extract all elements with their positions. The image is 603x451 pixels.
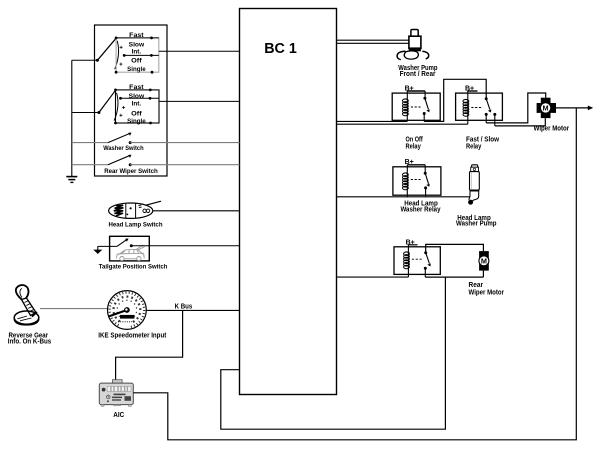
svg-text:Wiper Motor: Wiper Motor <box>534 125 570 132</box>
head lamp washer pump <box>456 165 497 228</box>
wire S2 output to BC1 <box>159 100 240 102</box>
wire S1 output to BC1 <box>159 50 240 52</box>
svg-text:Fast: Fast <box>129 84 144 91</box>
wire S1 pivot lead <box>72 59 97 61</box>
svg-text:Int.: Int. <box>132 101 142 108</box>
wire washer switch to BC1 <box>130 142 239 144</box>
head lamp switch <box>108 201 162 229</box>
svg-text:Off: Off <box>131 58 142 65</box>
washer switch <box>72 133 144 152</box>
svg-text:Fast: Fast <box>129 32 144 39</box>
tailgate position switch <box>93 236 167 270</box>
ground <box>66 177 77 183</box>
wire K2 out1 to wiper motor top <box>486 93 546 123</box>
svg-text:M: M <box>543 104 549 113</box>
svg-text:Int.: Int. <box>132 49 142 56</box>
svg-text:Rear: Rear <box>469 282 484 289</box>
switch assembly box <box>95 25 168 176</box>
svg-text:Wiper Motor: Wiper Motor <box>469 289 505 296</box>
wire speedometer to BC1 <box>146 309 239 311</box>
svg-text:Tailgate Position Switch: Tailgate Position Switch <box>99 264 168 271</box>
wire BC1 to K4 coil <box>337 276 409 278</box>
wire K4 common to rear motor top <box>426 244 484 252</box>
svg-text:Info. On K-Bus: Info. On K-Bus <box>8 339 51 346</box>
rotary wiper switch S1 <box>72 32 159 73</box>
svg-text:Washer Pump: Washer Pump <box>456 220 497 227</box>
svg-text:AIC: AIC <box>113 412 124 419</box>
wire AIC output to wiper motor line <box>133 108 576 440</box>
relay K4 rear wiper <box>394 239 504 296</box>
wire head lamp switch to BC1 <box>153 210 240 212</box>
svg-text:K Bus: K Bus <box>175 303 193 310</box>
AIC module <box>99 380 133 419</box>
wire BC1 to head lamp washer pump <box>337 196 470 198</box>
svg-text:IKE Speedometer Input: IKE Speedometer Input <box>98 332 167 339</box>
svg-text:Single: Single <box>127 66 146 73</box>
svg-text:Fast / Slow: Fast / Slow <box>466 137 500 144</box>
wire K-Bus drop to AIC <box>116 310 183 379</box>
rear wiper motor M2 <box>479 251 489 271</box>
wiper motor M1 <box>534 98 570 133</box>
wire wiper motor output arrow <box>556 107 589 109</box>
ground rail wire <box>71 60 73 176</box>
svg-text:Relay: Relay <box>466 144 481 151</box>
svg-text:Single: Single <box>127 118 146 125</box>
wire BC1 to washer pump (double) <box>337 39 409 41</box>
svg-text:Relay: Relay <box>406 144 421 151</box>
wire reverse gear to speedometer <box>40 308 108 310</box>
svg-text:Head Lamp Switch: Head Lamp Switch <box>108 222 162 229</box>
wire K1 switch to K2 common <box>424 79 486 121</box>
ground arrow <box>97 246 99 249</box>
svg-text:Slow: Slow <box>129 93 145 100</box>
svg-text:Front / Rear: Front / Rear <box>400 71 436 78</box>
rotary wiper switch S2 <box>72 84 159 125</box>
reverse gear K-Bus icon <box>8 285 51 345</box>
washer pump front/rear <box>397 30 437 78</box>
svg-text:M: M <box>481 256 487 265</box>
wire tailgate switch to BC1 <box>131 245 239 247</box>
svg-text:Washer Relay: Washer Relay <box>401 207 441 214</box>
wire S2 pivot lead <box>72 112 99 114</box>
relay K2 Fast/Slow <box>456 86 503 151</box>
wire K2 out2 to wiper motor bottom <box>495 118 546 126</box>
svg-text:Washer Switch: Washer Switch <box>103 145 143 152</box>
car icon <box>116 245 144 261</box>
BC1 control unit <box>240 9 337 395</box>
svg-text:On Off: On Off <box>406 137 424 144</box>
svg-text:BC 1: BC 1 <box>264 41 297 57</box>
wire BC1 to K2 coil <box>337 123 468 125</box>
rear wiper switch <box>72 155 158 176</box>
relay K1 On Off <box>392 86 440 151</box>
wire BC1 bottom-left pin to rear wiper circuit <box>221 277 446 429</box>
svg-text:Off: Off <box>131 111 142 118</box>
relay K3 head lamp washer <box>393 159 441 214</box>
IKE speedometer input <box>98 291 167 340</box>
wire K4 switch to rear motor bottom <box>425 276 483 278</box>
wire rear wiper switch to BC1 <box>130 164 239 166</box>
wire BC1 to K1 coil <box>337 120 408 122</box>
svg-text:Rear Wiper Switch: Rear Wiper Switch <box>104 168 158 175</box>
